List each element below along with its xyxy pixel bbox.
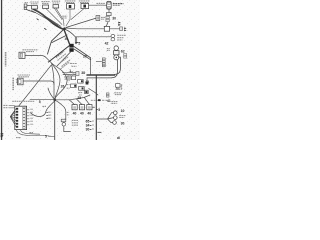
svg-text:62: 62 [121,49,125,53]
svg-text:30: 30 [121,122,125,126]
svg-text:40: 40 [87,112,91,116]
svg-text:dl: dl [117,136,120,140]
svg-text:5: 5 [78,42,80,46]
svg-text:2X: 2X [83,54,88,58]
svg-text:10: 10 [121,109,125,113]
svg-text:5: 5 [39,100,41,104]
svg-text:30: 30 [86,127,90,131]
svg-text:4: 4 [65,37,67,41]
svg-text:40: 40 [80,112,84,116]
svg-text:25: 25 [77,96,81,100]
svg-text:49: 49 [85,80,89,84]
svg-text:42: 42 [105,41,109,45]
svg-text:1: 1 [69,69,71,73]
svg-text:41: 41 [107,99,111,103]
svg-text:30: 30 [112,17,116,21]
svg-text:26: 26 [61,84,65,88]
svg-text:5: 5 [45,135,47,139]
svg-text:38: 38 [81,71,85,75]
svg-text:5: 5 [98,108,100,112]
svg-text:40: 40 [73,112,77,116]
